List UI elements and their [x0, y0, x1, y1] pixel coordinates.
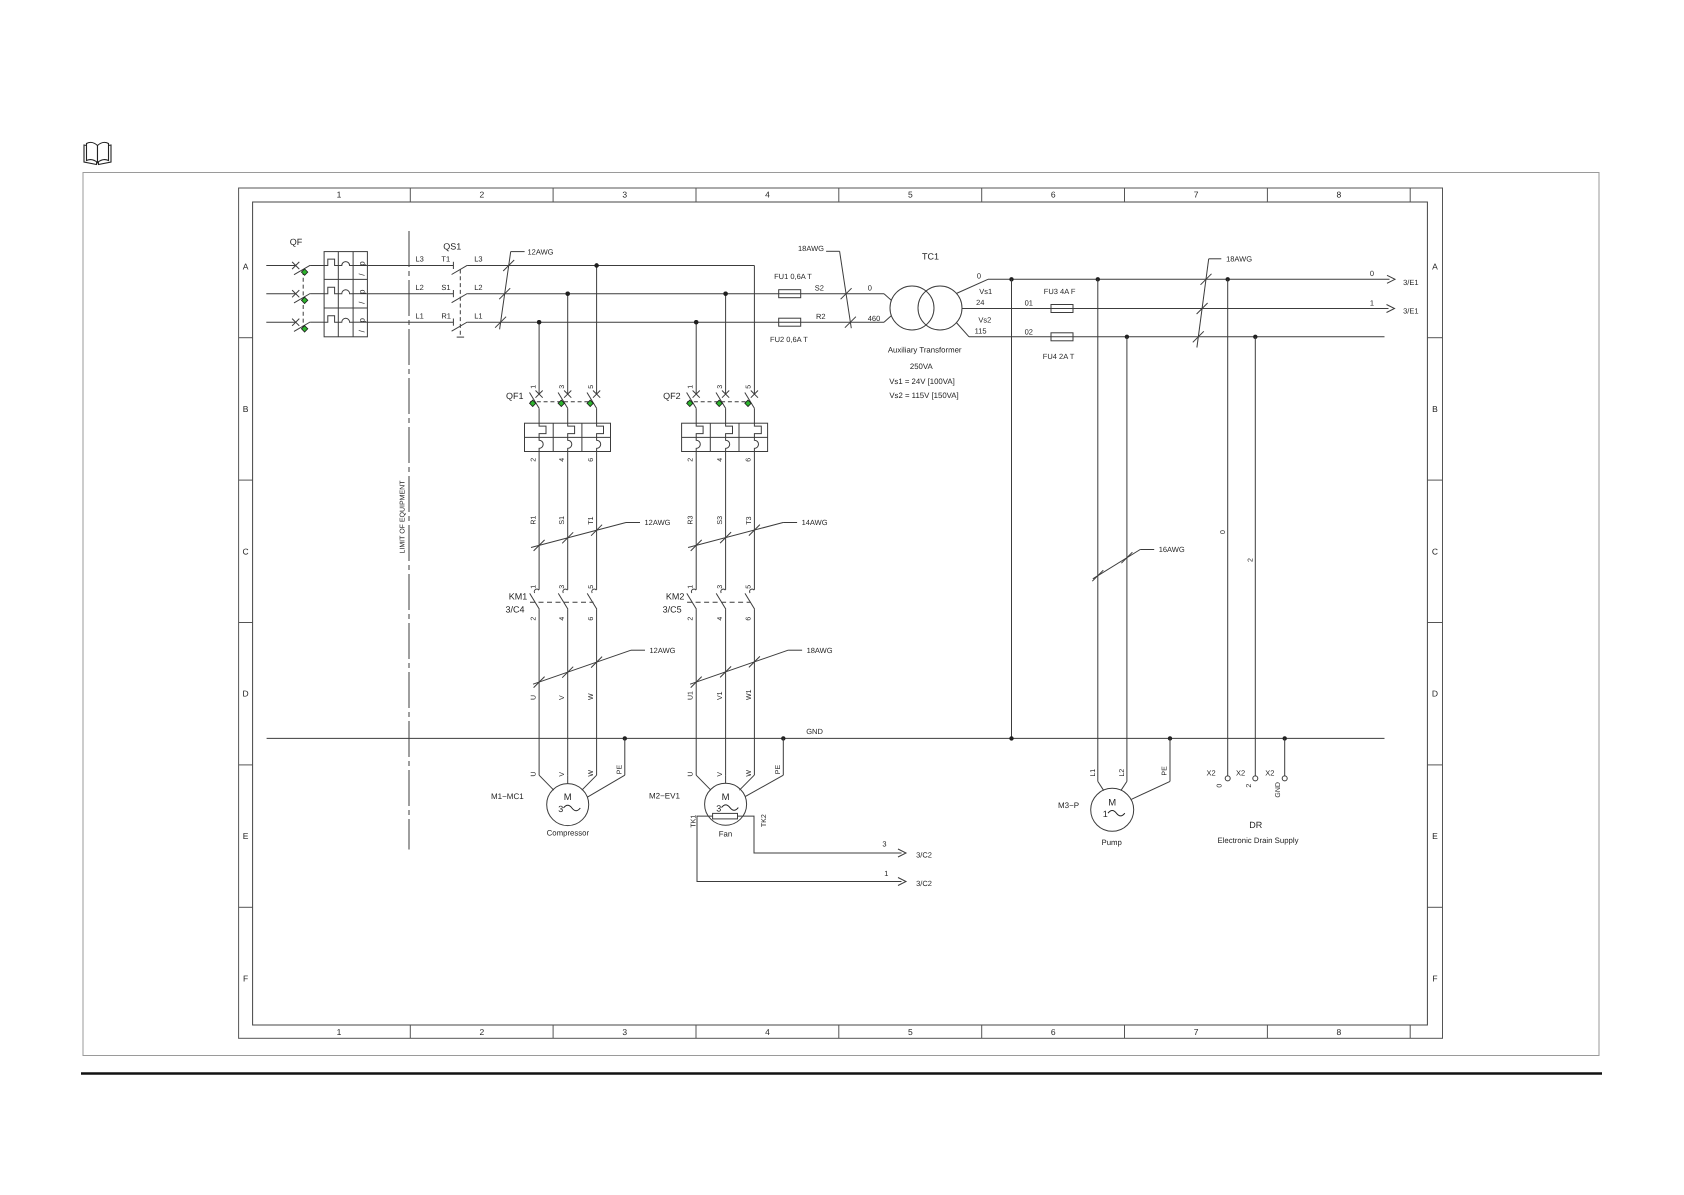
svg-text:0: 0	[1217, 784, 1224, 788]
svg-text:24: 24	[976, 298, 984, 307]
wire feed QF1 pole 1	[538, 322, 540, 394]
svg-text:5: 5	[908, 1027, 913, 1037]
motor terminal tags U V W	[531, 770, 596, 777]
svg-text:2: 2	[480, 190, 485, 200]
wire feed QF2 pole 3	[725, 294, 727, 394]
breaker QF1 pole 3 indicator	[558, 400, 564, 406]
svg-text:S2: S2	[815, 283, 824, 292]
svg-text:Auxiliary Transformer: Auxiliary Transformer	[888, 345, 962, 354]
wire KM2 to motor pole 1	[695, 609, 697, 775]
wire gauge 16AWG pump	[1140, 549, 1154, 551]
svg-text:T3: T3	[746, 516, 753, 524]
svg-text:PE: PE	[1161, 766, 1168, 776]
switch QS1 pole 2	[452, 290, 454, 297]
svg-text:L3: L3	[416, 255, 424, 264]
wire rail 0	[988, 278, 1390, 280]
svg-text:U1: U1	[688, 691, 695, 700]
wire pump L1	[1097, 279, 1099, 781]
svg-text:Vs2: Vs2	[978, 315, 991, 324]
svg-text:6: 6	[746, 458, 753, 462]
svg-text:L3: L3	[474, 255, 482, 264]
book icon	[84, 142, 111, 164]
junction dots T S R rails	[594, 263, 598, 267]
svg-text:5: 5	[746, 585, 753, 589]
breaker QF1 pole 3 contact	[564, 391, 571, 398]
wire TC1 primary 0	[884, 294, 891, 301]
svg-text:6: 6	[588, 458, 595, 462]
wire gauge 12AWG	[631, 649, 645, 651]
svg-text:X2: X2	[1236, 768, 1245, 777]
svg-text:6: 6	[746, 617, 753, 621]
svg-text:FU3 4A F: FU3 4A F	[1044, 287, 1076, 296]
switch QS1 linkage	[459, 270, 461, 338]
svg-text:FU4 2A T: FU4 2A T	[1043, 352, 1075, 361]
breaker QF2 pole 5 indicator	[745, 400, 751, 406]
svg-text:V: V	[559, 695, 566, 700]
svg-text:3: 3	[559, 385, 566, 389]
terminal X2:0	[1225, 776, 1230, 781]
breaker QF2 pole 3 contact	[722, 391, 729, 398]
svg-text:FU1 0,6A T: FU1 0,6A T	[774, 272, 812, 281]
svg-text:T1: T1	[588, 516, 595, 524]
svg-text:E: E	[243, 831, 249, 841]
svg-text:3: 3	[622, 1027, 627, 1037]
svg-text:2: 2	[530, 458, 537, 462]
svg-text:TK1: TK1	[691, 815, 698, 828]
svg-text:2: 2	[687, 617, 694, 621]
wire labels after QS1	[474, 255, 482, 321]
row letters	[243, 262, 1439, 984]
svg-text:KM2: KM2	[666, 591, 685, 601]
svg-text:R3: R3	[688, 516, 695, 525]
svg-text:6: 6	[1051, 190, 1056, 200]
breaker QF2 linkage	[687, 401, 750, 403]
svg-text:C: C	[1432, 546, 1438, 556]
wire gauge 18AWG secondary	[1209, 258, 1222, 260]
svg-text:1: 1	[687, 385, 694, 389]
breaker QF pole 1 contact	[292, 262, 299, 269]
wire X2-0	[1227, 279, 1229, 776]
transformer TC1 ratings	[975, 271, 993, 335]
wire X2-2	[1254, 337, 1256, 776]
svg-text:V: V	[559, 772, 566, 777]
svg-text:5: 5	[746, 385, 753, 389]
frame band	[239, 188, 1443, 1038]
svg-text:L2: L2	[416, 283, 424, 292]
svg-text:R1: R1	[531, 516, 538, 525]
svg-text:18AWG: 18AWG	[798, 244, 824, 253]
fuse FU4	[1051, 333, 1073, 341]
svg-text:4: 4	[765, 1027, 770, 1037]
wire rail 115	[969, 336, 1385, 338]
svg-text:L1: L1	[474, 311, 482, 320]
svg-text:W: W	[588, 693, 595, 700]
svg-text:0: 0	[977, 271, 981, 280]
svg-text:KM1: KM1	[509, 591, 528, 601]
wire feed QF2 pole 5	[753, 266, 755, 395]
wire KM1 to motor pole 1	[538, 609, 540, 775]
terminal X2:2	[1253, 776, 1258, 781]
breaker QF release marks	[358, 261, 367, 333]
svg-text:18AWG: 18AWG	[1226, 254, 1252, 263]
motor terminal tags U V W	[688, 770, 753, 777]
wire tags R1 S1 T1	[531, 516, 596, 525]
wire QF1 to KM1 pole 1	[538, 452, 540, 590]
wire TC1 secondary 0	[956, 279, 988, 293]
svg-text:8: 8	[1337, 190, 1342, 200]
wire gauge 12AWG	[626, 522, 640, 524]
contactor KM2 pole 5	[750, 589, 755, 593]
svg-text:4: 4	[559, 458, 566, 462]
contactor KM2 linkage	[687, 601, 751, 603]
svg-text:QF: QF	[290, 237, 303, 247]
svg-text:L2: L2	[1119, 769, 1126, 777]
svg-text:3/E1: 3/E1	[1403, 278, 1418, 287]
svg-text:TC1: TC1	[922, 252, 939, 262]
wire rail R (L1)	[266, 321, 295, 323]
svg-text:2: 2	[480, 1027, 485, 1037]
page border	[83, 173, 1599, 1056]
wire TK1 to 3/C2	[697, 816, 902, 881]
svg-text:6: 6	[1051, 1027, 1056, 1037]
breaker QF pole 3 contact	[292, 319, 299, 326]
svg-text:460: 460	[868, 314, 881, 323]
svg-text:U: U	[531, 772, 538, 777]
switch QS1 pole 1	[452, 262, 454, 269]
svg-text:18AWG: 18AWG	[807, 646, 833, 655]
svg-text:1: 1	[687, 585, 694, 589]
breaker QF1 pole 1 indicator	[530, 400, 536, 406]
svg-text:B: B	[243, 404, 249, 414]
wire pump PE	[1168, 736, 1172, 740]
column ticks top	[410, 188, 1410, 1038]
svg-text:0: 0	[1220, 530, 1227, 534]
breaker QF trip elements	[324, 252, 367, 337]
svg-text:2: 2	[687, 458, 694, 462]
wire S to QS1	[367, 293, 453, 295]
breaker QF pole 3 indicator	[301, 326, 307, 332]
wire feed QF2 pole 1	[695, 322, 697, 394]
svg-text:Electronic Drain Supply: Electronic Drain Supply	[1217, 836, 1298, 845]
svg-text:1: 1	[530, 585, 537, 589]
wire T to QS1	[367, 265, 453, 267]
svg-text:7: 7	[1194, 190, 1199, 200]
breaker QF2 pole 1 contact	[693, 391, 700, 398]
wire feed QF1 pole 5	[596, 266, 598, 395]
switch QS1 pole 3	[452, 319, 454, 326]
svg-text:Vs1: Vs1	[979, 287, 992, 296]
svg-text:p: p	[358, 261, 367, 266]
contactor KM1 pole 5	[592, 589, 597, 593]
svg-text:8: 8	[1337, 1027, 1342, 1037]
svg-text:X2: X2	[1265, 768, 1274, 777]
svg-text:3/C5: 3/C5	[663, 604, 682, 614]
svg-text:QF2: QF2	[663, 391, 681, 401]
breaker QF1 pole 1 contact	[536, 391, 543, 398]
transformer TC1 notes	[888, 345, 962, 400]
svg-text:3: 3	[622, 190, 627, 200]
svg-text:4: 4	[559, 617, 566, 621]
wire X2-GND	[1283, 736, 1287, 740]
contactor KM1 linkage	[530, 601, 594, 603]
svg-text:Pump: Pump	[1102, 838, 1123, 847]
wire rail S (L2)	[266, 293, 295, 295]
wire TC1 secondary 24	[961, 308, 963, 310]
svg-text:4: 4	[717, 458, 724, 462]
svg-text:0: 0	[1370, 269, 1374, 278]
svg-text:QS1: QS1	[443, 242, 461, 252]
svg-text:3/C4: 3/C4	[506, 604, 525, 614]
svg-text:L2: L2	[474, 283, 482, 292]
svg-text:A: A	[1432, 262, 1438, 272]
wire TC1 primary 460	[884, 316, 891, 323]
breaker QF pole 1 indicator	[301, 269, 307, 275]
breaker QF2 pole 5 contact	[751, 391, 758, 398]
limit of equipment boundary	[408, 231, 410, 850]
wire GND bus	[267, 737, 1385, 739]
svg-text:1: 1	[1370, 298, 1374, 307]
svg-text:C: C	[243, 546, 249, 556]
svg-text:1: 1	[530, 385, 537, 389]
svg-text:D: D	[1432, 689, 1438, 699]
wire KM2 to motor pole 5	[753, 609, 755, 775]
svg-text:T1: T1	[441, 255, 450, 264]
wire tags U V W	[531, 693, 596, 700]
svg-text:3/C2: 3/C2	[916, 879, 932, 888]
svg-text:12AWG: 12AWG	[650, 646, 676, 655]
svg-text:4: 4	[765, 190, 770, 200]
svg-text:B: B	[1432, 404, 1438, 414]
svg-text:LIMIT OF EQUIPMENT: LIMIT OF EQUIPMENT	[400, 480, 407, 554]
contactor KM2 pole 1	[691, 589, 696, 593]
svg-text:V: V	[717, 772, 724, 777]
svg-text:S1: S1	[559, 516, 566, 525]
svg-text:S3: S3	[717, 516, 724, 525]
svg-text:Compressor: Compressor	[547, 828, 590, 837]
wire rail S	[467, 293, 778, 295]
breaker QF1 pole 5 indicator	[587, 400, 593, 406]
wire feed QF1 pole 3	[567, 294, 569, 394]
svg-text:3/C2: 3/C2	[916, 850, 932, 859]
svg-text:3: 3	[559, 585, 566, 589]
svg-text:14AWG: 14AWG	[802, 518, 828, 527]
svg-text:3: 3	[558, 804, 563, 814]
wire QF1 to KM1 pole 3	[567, 452, 569, 590]
wire labels before QS1	[416, 255, 451, 321]
svg-text:M1−MC1: M1−MC1	[491, 792, 524, 801]
svg-text:p: p	[358, 289, 367, 294]
svg-text:PE: PE	[775, 765, 782, 775]
svg-text:GND: GND	[806, 727, 823, 736]
svg-text:2: 2	[530, 617, 537, 621]
breaker QF pole 2 indicator	[301, 297, 307, 303]
svg-text:F: F	[1432, 974, 1437, 984]
contactor KM2 pole 3	[721, 589, 726, 593]
svg-text:12AWG: 12AWG	[528, 247, 554, 256]
wire gauge 12AWG feeders	[511, 251, 525, 253]
svg-text:12AWG: 12AWG	[645, 518, 671, 527]
svg-text:M: M	[564, 792, 572, 803]
svg-text:1: 1	[1103, 809, 1108, 819]
wire gauge 18AWG primary	[826, 250, 840, 252]
footer rule	[81, 1072, 1602, 1075]
svg-text:1: 1	[884, 869, 888, 878]
junction dots rail 0	[1009, 277, 1013, 281]
breaker QF1 trip unit box	[525, 423, 611, 451]
wire KM1 to motor pole 3	[567, 609, 569, 775]
svg-text:5: 5	[588, 385, 595, 389]
svg-text:250VA: 250VA	[910, 362, 934, 371]
svg-text:W: W	[588, 770, 595, 777]
breaker QF1 linkage	[530, 401, 593, 403]
wire QF2 to KM2 pole 1	[695, 452, 697, 590]
svg-text:5: 5	[588, 585, 595, 589]
svg-text:R1: R1	[441, 311, 451, 320]
svg-text:M: M	[1108, 797, 1116, 808]
svg-text:L1: L1	[416, 311, 424, 320]
frame inner	[253, 202, 1428, 1025]
svg-text:01: 01	[1025, 298, 1033, 307]
svg-text:R2: R2	[816, 312, 826, 321]
contactor KM1 pole 1	[534, 589, 539, 593]
thermal contact TK	[713, 813, 738, 819]
svg-text:Fan: Fan	[719, 830, 732, 839]
svg-text:QF1: QF1	[506, 391, 524, 401]
column numbers	[337, 190, 1342, 1038]
wire KM2 to motor pole 3	[725, 609, 727, 775]
svg-text:2: 2	[1246, 784, 1253, 788]
wire TK2 to 3/C2	[738, 816, 902, 853]
svg-text:0: 0	[868, 283, 872, 292]
wire QF2 to KM2 pole 5	[753, 452, 755, 590]
contactor KM1 pole 3	[563, 589, 568, 593]
svg-text:X2: X2	[1207, 768, 1216, 777]
arrow 1 to 3/E1	[1387, 305, 1395, 313]
svg-text:L1: L1	[1090, 769, 1097, 777]
row ticks sides	[239, 338, 1443, 908]
arrow 0 to 3/E1	[1387, 275, 1395, 283]
svg-text:7: 7	[1194, 1027, 1199, 1037]
svg-text:p: p	[358, 318, 367, 323]
breaker QF2 trip unit box	[682, 423, 768, 451]
wire tags U1 V1 W1	[688, 689, 753, 700]
breaker QF pole 2 contact	[292, 290, 299, 297]
svg-text:W1: W1	[746, 689, 753, 700]
svg-text:TK2: TK2	[761, 814, 768, 827]
wire tags R3 S3 T3	[688, 516, 753, 525]
wire rail T (L3)	[266, 265, 295, 267]
wire M1 PE	[623, 736, 627, 740]
svg-text:V1: V1	[717, 691, 724, 700]
svg-text:M2−EV1: M2−EV1	[649, 792, 680, 801]
svg-text:5: 5	[908, 190, 913, 200]
wire gauge 14AWG	[783, 522, 797, 524]
wire rail 24	[962, 308, 1389, 310]
fuse FU2	[779, 318, 801, 326]
wire KM1 to motor pole 5	[596, 609, 598, 775]
svg-text:DR: DR	[1249, 820, 1262, 830]
svg-text:PE: PE	[617, 765, 624, 775]
fuse FU3	[1051, 305, 1073, 313]
svg-text:1: 1	[337, 1027, 342, 1037]
svg-text:E: E	[1432, 831, 1438, 841]
svg-text:A: A	[243, 262, 249, 272]
svg-text:GND: GND	[1275, 782, 1282, 798]
wire TC1 secondary 115	[956, 323, 969, 337]
svg-text:W: W	[746, 770, 753, 777]
wire pump L2	[1126, 337, 1128, 782]
wire QF2 to KM2 pole 3	[725, 452, 727, 590]
breaker QF2 pole 3 indicator	[716, 400, 722, 406]
svg-text:6: 6	[588, 617, 595, 621]
svg-text:M: M	[722, 792, 730, 803]
wire rail R	[467, 321, 778, 323]
svg-text:Vs1 = 24V [100VA]: Vs1 = 24V [100VA]	[889, 377, 955, 386]
svg-text:FU2 0,6A T: FU2 0,6A T	[770, 335, 808, 344]
svg-text:U: U	[688, 772, 695, 777]
svg-text:3/E1: 3/E1	[1403, 306, 1418, 315]
fuse FU1	[779, 290, 801, 298]
svg-text:16AWG: 16AWG	[1159, 545, 1185, 554]
svg-text:115: 115	[975, 327, 987, 336]
svg-text:1: 1	[337, 190, 342, 200]
breaker QF linkage	[302, 271, 304, 329]
wire gauge 18AWG	[788, 649, 802, 651]
svg-text:S1: S1	[441, 283, 450, 292]
wire 0 to GND	[1011, 279, 1013, 738]
svg-text:3: 3	[882, 839, 886, 848]
svg-text:02: 02	[1025, 328, 1033, 337]
wire R to QS1	[367, 321, 453, 323]
wire QF1 to KM1 pole 5	[596, 452, 598, 590]
terminal X2:GND	[1282, 776, 1287, 781]
svg-text:4: 4	[717, 617, 724, 621]
svg-text:U: U	[531, 695, 538, 700]
svg-text:M3−P: M3−P	[1058, 801, 1079, 810]
svg-text:D: D	[243, 689, 249, 699]
junction dots rail 115	[1125, 335, 1129, 339]
svg-text:3: 3	[716, 803, 721, 813]
wire rail T	[467, 265, 754, 267]
svg-text:3: 3	[717, 585, 724, 589]
svg-text:2: 2	[1247, 558, 1254, 562]
breaker QF2 pole 1 indicator	[687, 400, 693, 406]
svg-text:3: 3	[717, 385, 724, 389]
svg-text:F: F	[243, 974, 248, 984]
svg-text:Vs2 = 115V [150VA]: Vs2 = 115V [150VA]	[889, 391, 958, 400]
breaker QF1 pole 5 contact	[593, 391, 600, 398]
wire M2 PE	[781, 736, 785, 740]
